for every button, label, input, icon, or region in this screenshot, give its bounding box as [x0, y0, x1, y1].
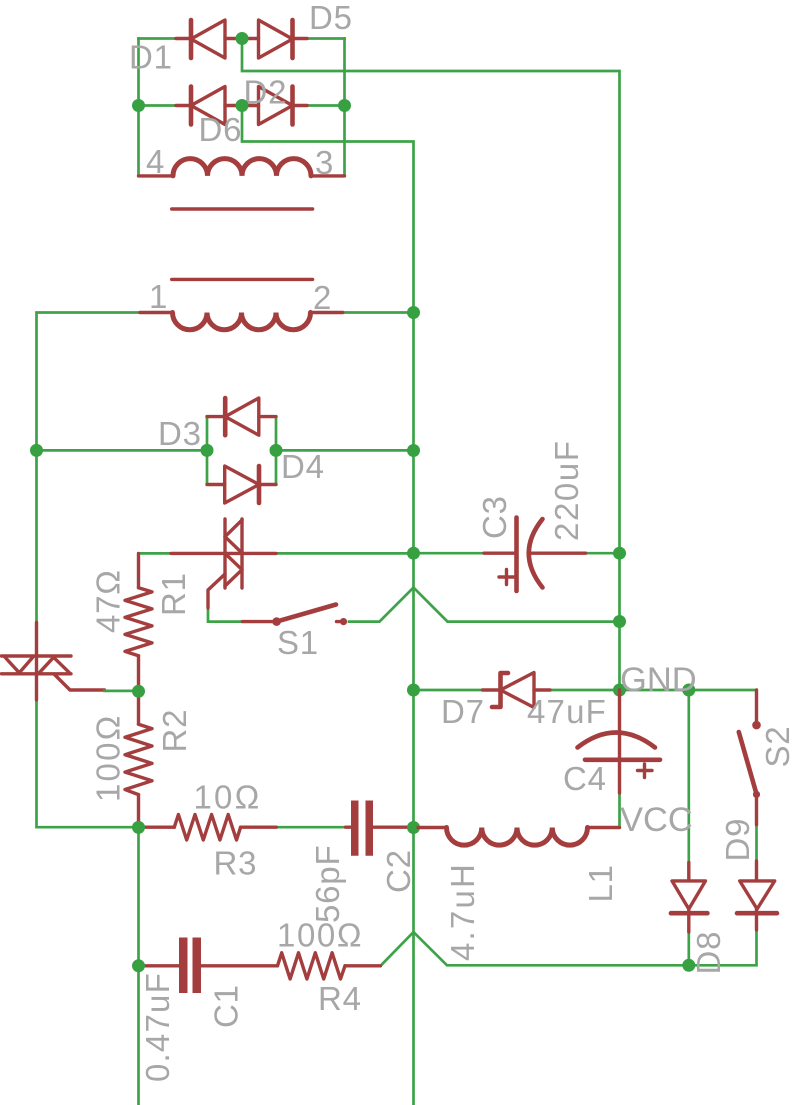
node S1 wire to right vertical	[613, 615, 626, 628]
svg-text:D1: D1	[129, 39, 173, 76]
wire GND to D8	[687, 690, 690, 863]
wire from D1/D5 junction right to far right vertical	[242, 39, 620, 691]
wire top row 1 segments	[139, 37, 345, 40]
wire S1 to right vertical (diagonal)	[349, 588, 620, 622]
diode D2	[259, 87, 308, 125]
wire S2 to D9	[755, 825, 758, 861]
diode D3	[207, 398, 276, 435]
svg-text:47uF: 47uF	[527, 693, 607, 730]
diode D6	[176, 87, 259, 125]
node C1 junction	[132, 959, 145, 972]
node D1-D5 junction	[236, 32, 249, 45]
node GND center	[613, 684, 626, 697]
svg-text:3: 3	[315, 144, 334, 181]
svg-text:C3: C3	[476, 495, 513, 539]
wire gate to S1	[208, 608, 242, 622]
svg-text:GND: GND	[620, 661, 697, 699]
svg-text:D9: D9	[719, 818, 756, 862]
svg-text:220uF: 220uF	[548, 439, 585, 541]
svg-text:10Ω: 10Ω	[194, 779, 262, 816]
svg-text:0.47uF: 0.47uF	[139, 972, 176, 1082]
node bridge to center vertical	[407, 444, 420, 457]
transformer winding pins 1-2	[140, 313, 343, 330]
diode D5	[259, 20, 308, 58]
svg-text:56pF: 56pF	[309, 845, 346, 923]
resistor R1	[125, 553, 152, 691]
wire bottom right run with diagonal	[381, 930, 757, 966]
svg-text:1: 1	[149, 278, 168, 315]
svg-text:VCC: VCC	[620, 801, 693, 839]
diode D1	[176, 20, 259, 58]
wire R2 to C1 column	[137, 827, 140, 1105]
node D6-D2 junction	[236, 99, 249, 112]
wire D3/D4 right joint	[276, 449, 414, 452]
svg-text:R1: R1	[155, 572, 192, 616]
svg-text:R2: R2	[156, 709, 193, 753]
diac Q1 (vertical)	[171, 519, 276, 608]
capacitor C1	[143, 938, 201, 994]
wire R1 top	[139, 552, 172, 555]
wire right column top rows	[343, 39, 346, 176]
svg-text:100Ω: 100Ω	[90, 713, 127, 802]
svg-text:D6: D6	[199, 111, 243, 148]
wire winding 1-2 right to center	[343, 311, 414, 314]
svg-text:D2: D2	[244, 74, 288, 111]
wire C3 right	[586, 552, 620, 555]
wire GND row	[414, 689, 757, 692]
wire left column top rows	[137, 39, 140, 176]
wire C4 lower green	[618, 793, 621, 828]
diac Q2 (left, horizontal)	[1, 623, 104, 701]
diode D9	[737, 861, 777, 930]
node D8 bottom	[682, 959, 695, 972]
node winding 2 to center	[407, 306, 420, 319]
resistor R2	[125, 691, 152, 827]
capacitor C2	[346, 801, 408, 856]
resistor R3	[143, 815, 276, 841]
resistor R4	[201, 953, 381, 979]
switch S2	[739, 690, 761, 825]
node C2-L1 junction	[407, 821, 420, 834]
node D3/D4 left	[201, 444, 214, 457]
svg-text:D8: D8	[690, 931, 727, 975]
switch S1	[242, 605, 347, 626]
wire top row 2 segments	[139, 104, 345, 107]
wire D8 bottom	[687, 932, 690, 965]
transformer core line 1	[172, 207, 313, 210]
wire R3 to C2	[276, 826, 413, 829]
svg-text:S1: S1	[277, 624, 319, 661]
svg-text:L1: L1	[582, 864, 619, 902]
node R1-R2 gate junction	[132, 685, 145, 698]
svg-text:100Ω: 100Ω	[277, 917, 363, 954]
node GND left	[407, 684, 420, 697]
node GND right	[682, 684, 695, 697]
svg-text:C2: C2	[380, 849, 417, 893]
svg-text:D5: D5	[309, 0, 353, 36]
svg-text:S2: S2	[759, 726, 796, 768]
wire D3/D4 ring	[207, 417, 276, 485]
wire diac gate to R1/R2 node	[105, 690, 139, 693]
svg-text:D3: D3	[158, 415, 202, 452]
svg-text:C1: C1	[208, 984, 245, 1028]
svg-text:C4: C4	[563, 760, 607, 797]
capacitor C3	[484, 518, 586, 592]
svg-text:R4: R4	[318, 980, 362, 1017]
wire from D6/D2 junction to main center vertical	[242, 106, 414, 1105]
capacitor C4	[578, 690, 661, 793]
svg-text:R3: R3	[214, 845, 258, 882]
node C3 left	[407, 547, 420, 560]
svg-text:D4: D4	[281, 448, 325, 485]
wire C3 left	[414, 552, 485, 555]
transformer core line 2	[172, 278, 313, 281]
diode D4	[207, 466, 276, 503]
wire D3/D4 left joint	[37, 449, 208, 452]
node R2-R3 junction	[132, 821, 145, 834]
wire diac to center vertical	[276, 552, 414, 555]
diode D8	[671, 863, 708, 933]
svg-text:D7: D7	[441, 693, 485, 730]
node C3 right	[613, 547, 626, 560]
svg-text:2: 2	[313, 279, 332, 316]
svg-text:4: 4	[146, 143, 165, 180]
wire left outer vertical	[37, 313, 141, 828]
node D3/D4 right	[270, 444, 283, 457]
node left bridge junction	[30, 444, 43, 457]
svg-text:4.7uH: 4.7uH	[444, 862, 481, 961]
diode D7 (zener)	[483, 673, 551, 708]
node right row junction	[338, 99, 351, 112]
inductor L1	[418, 828, 620, 846]
transformer winding pins 4-3	[139, 159, 345, 176]
svg-text:47Ω: 47Ω	[90, 569, 127, 633]
node left row junction	[132, 99, 145, 112]
